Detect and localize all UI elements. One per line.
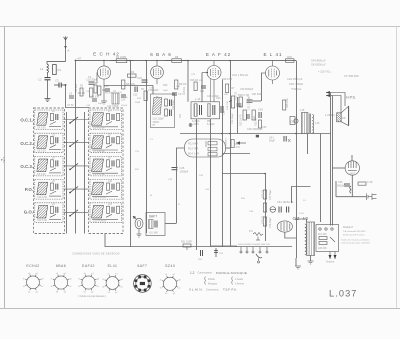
wire osc link y85 — [104, 85, 153, 87]
svg-text:C10 3-30: C10 3-30 — [37, 196, 48, 199]
wire bank top link — [66, 107, 89, 109]
svg-text:L11: L11 — [108, 203, 112, 206]
svg-text:C7 6-30 pF: C7 6-30 pF — [93, 150, 105, 153]
EL41 grid resistor R20 — [238, 93, 249, 107]
wire speaker feed B — [332, 96, 334, 226]
wire ECH42 grid — [95, 73, 98, 84]
svg-text:R17: R17 — [230, 87, 235, 90]
wire input node — [47, 73, 49, 78]
svg-text:C13 6-30 pF: C13 6-30 pF — [93, 219, 107, 222]
svg-text:Connexions: Connexions — [206, 289, 219, 292]
resistor R21 — [259, 120, 262, 128]
resistor R8 — [165, 55, 188, 62]
wire mid drop x176 — [176, 186, 178, 224]
svg-text:R6: R6 — [131, 71, 135, 74]
socket GZ40 — [160, 264, 182, 295]
svg-text:g2: g2 — [115, 292, 118, 294]
note model text — [341, 226, 371, 245]
svg-text:4 W: 4 W — [236, 146, 241, 149]
resistor R30 — [358, 181, 373, 185]
svg-text:C8 3-30: C8 3-30 — [37, 173, 46, 176]
osc coil L6 — [112, 89, 119, 104]
svg-text:~330V: ~330V — [192, 123, 199, 126]
svg-text:Secteur: Secteur — [326, 261, 334, 264]
wire x202 drop — [201, 73, 203, 102]
wire xfmr secondary drop — [307, 134, 309, 155]
svg-text:PU: PU — [249, 229, 253, 233]
resistor R31 — [181, 241, 192, 251]
svg-text:C15: C15 — [137, 76, 142, 80]
matching box DE — [290, 117, 295, 125]
top B+ rail — [76, 60, 297, 62]
svg-text:GZ40: GZ40 — [165, 264, 175, 268]
svg-text:R8: R8 — [175, 55, 179, 59]
socket ECH42 — [23, 264, 44, 293]
svg-text:ECH42: ECH42 — [26, 264, 39, 268]
svg-text:L3: L3 — [52, 133, 55, 136]
lamp E2 — [214, 248, 224, 257]
svg-text:R1: R1 — [58, 68, 62, 72]
trimmer C13 — [133, 87, 138, 97]
svg-text:g8: g8 — [69, 278, 72, 280]
wire antenna lead down to band switch — [65, 85, 67, 108]
resistor R5 — [122, 80, 135, 89]
wire right bus x230 — [230, 61, 232, 247]
svg-text:R25 10R: R25 10R — [286, 98, 289, 108]
svg-text:s6: s6 — [28, 273, 31, 275]
op tube EAF42 — [202, 61, 221, 102]
svg-text:C30 5000pF: C30 5000pF — [240, 88, 254, 91]
EAF42 screen resistor R16 — [190, 79, 198, 91]
wire rail drop x146 — [146, 61, 148, 234]
svg-text:g2: g2 — [91, 292, 94, 294]
svg-text:730: 730 — [124, 97, 128, 99]
svg-text:6BA6: 6BA6 — [56, 264, 66, 268]
wire x196 lower — [196, 146, 198, 250]
svg-text:C49: C49 — [249, 211, 254, 213]
svg-text:R14 1,4R: R14 1,4R — [188, 152, 199, 156]
svg-text:C9 6-30 pF: C9 6-30 pF — [93, 173, 105, 176]
svg-text:Parole: Parole — [208, 278, 216, 281]
svg-text:Vibreur: Vibreur — [225, 138, 228, 146]
capacitor C42 on bus — [284, 136, 291, 142]
svg-text:50pF: 50pF — [98, 103, 104, 105]
svg-text:110 130: 110 130 — [318, 233, 327, 236]
coil bank B dashed enclosure — [89, 108, 124, 234]
svg-text:1.2: 1.2 — [190, 271, 195, 275]
svg-text:6AF7: 6AF7 — [149, 215, 157, 219]
svg-text:f5: f5 — [78, 278, 81, 280]
svg-text:C5: C5 — [69, 93, 73, 96]
svg-text:R15: R15 — [199, 80, 204, 82]
legend brace 2 — [232, 277, 245, 286]
svg-text:CT 600 ΩW: CT 600 ΩW — [344, 74, 359, 78]
svg-text:A: A — [67, 49, 69, 53]
svg-text:R16: R16 — [137, 98, 142, 100]
svg-text:R2: R2 — [80, 85, 84, 88]
wire antenna to input — [47, 62, 66, 65]
coil L1 — [40, 64, 49, 73]
frame left rule — [4, 27, 6, 309]
coil module A OC3 — [35, 156, 63, 176]
svg-text:C23: C23 — [216, 97, 221, 100]
wire to speaker top — [326, 91, 345, 113]
svg-text:R29 1R: R29 1R — [262, 216, 265, 224]
wire EL41 grid bus — [237, 97, 239, 134]
rectifier tube GZ40 — [277, 221, 292, 232]
mains selector box — [316, 225, 339, 252]
coil module A GO — [35, 203, 63, 223]
svg-text:L6: L6 — [113, 89, 116, 93]
wire IF2 drops — [196, 119, 198, 146]
svg-text:1 Avant: 1 Avant — [235, 278, 243, 281]
resistor R1 — [53, 65, 62, 75]
svg-text:s6: s6 — [165, 274, 168, 276]
value micro noise mid — [135, 139, 306, 215]
wire transformer top — [296, 219, 307, 222]
svg-text:C43 5000 μF: C43 5000 μF — [311, 64, 326, 67]
svg-text:C28: C28 — [180, 166, 185, 170]
PU resistor network — [249, 229, 263, 240]
svg-text:m7: m7 — [115, 274, 119, 276]
svg-text:g8: g8 — [178, 280, 181, 282]
svg-text:a1: a1 — [41, 286, 44, 288]
band switch wafer row OC2 — [64, 140, 89, 147]
svg-text:a1: a1 — [121, 287, 124, 289]
arrow AVC left — [236, 141, 246, 144]
IF transformer T2 can — [191, 97, 220, 126]
wire eye column lower — [351, 184, 353, 197]
ground ECH42 cathode — [101, 96, 107, 104]
svg-text:P.O.: P.O. — [25, 187, 33, 192]
value micro noise 6BA6 — [135, 86, 180, 104]
svg-text:C2: C2 — [38, 78, 42, 82]
svg-text:6 B A 6: 6 B A 6 — [150, 52, 172, 57]
band switch wafer row OC1 — [64, 117, 89, 124]
frame bottom rule — [0, 308, 400, 310]
svg-text:R28 3R: R28 3R — [262, 190, 265, 198]
op tube 6BA6 — [151, 60, 164, 85]
legend switch line — [190, 271, 247, 275]
svg-text:f4: f4 — [102, 287, 105, 289]
coil module B OC3 — [90, 156, 122, 176]
svg-text:PT: PT — [153, 125, 157, 127]
wire gap bus 2 — [84, 112, 86, 234]
antenna A — [64, 36, 70, 61]
ECH42 grid capacitor C10 — [86, 78, 98, 85]
capacitor C34 — [258, 108, 263, 119]
coil module B GO — [90, 203, 122, 223]
ground GZ40 — [295, 258, 301, 269]
svg-text:R18 0,5R: R18 0,5R — [222, 78, 232, 81]
op tube EL41 — [261, 61, 280, 85]
wire eye top — [351, 155, 353, 161]
svg-text:P04: P04 — [198, 259, 203, 261]
svg-text:R12 64R: R12 64R — [188, 142, 198, 146]
frame top rule — [0, 26, 400, 28]
svg-text:L 14: L 14 — [195, 97, 201, 101]
svg-text:C29: C29 — [168, 179, 173, 181]
svg-text:2 Arriere: 2 Arriere — [235, 283, 245, 286]
svg-text:T.A. alternatif 110-245V: T.A. alternatif 110-245V — [343, 230, 366, 233]
svg-text:C32 10000pF: C32 10000pF — [248, 95, 251, 110]
svg-text:300R: 300R — [135, 102, 141, 104]
wire output drop x320 — [320, 134, 322, 223]
svg-text:f4: f4 — [23, 286, 26, 288]
output transformer L15 primary — [300, 108, 308, 134]
wire rail drop x130 — [130, 61, 132, 248]
ground — [45, 99, 51, 102]
svg-text:L6: L6 — [52, 203, 55, 206]
svg-text:C12: C12 — [118, 92, 123, 94]
svg-text:E A F 42: E A F 42 — [206, 52, 231, 57]
svg-text:k3: k3 — [165, 293, 168, 295]
value micro noise cluster ECH42 — [86, 91, 128, 107]
svg-text:R2 100R: R2 100R — [116, 55, 126, 59]
svg-text:a1: a1 — [69, 286, 72, 288]
svg-text:sont mesurees avec voltmetre: sont mesurees avec voltmetre — [341, 242, 371, 245]
svg-text:Toutes les tensions continues: Toutes les tensions continues — [341, 239, 370, 242]
svg-text:L9: L9 — [108, 157, 111, 160]
legend connexions line — [189, 288, 237, 292]
svg-text:10R: 10R — [176, 86, 180, 88]
svg-text:1.33 KΩ: 1.33 KΩ — [325, 113, 335, 117]
svg-text:m7: m7 — [91, 273, 95, 275]
band switch wafer row OC3 — [64, 163, 89, 170]
svg-text:C35 20000pF: C35 20000pF — [247, 127, 263, 131]
svg-text:C50: C50 — [219, 253, 224, 255]
svg-text:C11: C11 — [104, 84, 109, 88]
svg-text:PAROLE-MUSIQUE: PAROLE-MUSIQUE — [216, 271, 247, 275]
wire EL41 grid drop — [261, 73, 263, 101]
svg-text:g8: g8 — [97, 278, 100, 280]
trimmer C22 — [221, 106, 226, 115]
svg-text:( Culots vus par dessous ): ( Culots vus par dessous ) — [78, 295, 106, 298]
svg-text:C5 6-30 pF: C5 6-30 pF — [93, 127, 105, 130]
capacitor C17 — [172, 92, 183, 96]
capacitor C51 16uF — [277, 200, 294, 213]
wire oscillator bus x75 — [75, 61, 77, 234]
svg-text:Modele P: Modele P — [343, 226, 354, 229]
AVC bus — [180, 133, 331, 135]
svg-text:R10: R10 — [163, 84, 168, 87]
wire speaker feed A — [330, 93, 332, 226]
socket 6AF7 — [134, 264, 152, 292]
coil module A PO — [35, 180, 63, 200]
resistor R3 — [78, 88, 93, 97]
frame right rule — [396, 27, 398, 309]
svg-text:M: M — [150, 195, 152, 197]
svg-text:G.O.: G.O. — [24, 210, 33, 215]
svg-text:L16: L16 — [315, 121, 320, 125]
svg-text:O.C.1.: O.C.1. — [20, 118, 33, 123]
terminal node — [189, 124, 192, 127]
resistor R4 — [98, 86, 106, 95]
svg-text:Musique: Musique — [208, 283, 218, 286]
svg-text:+ 210 V E₁₂: + 210 V E₁₂ — [318, 71, 331, 74]
capacitor C33b — [247, 114, 249, 119]
svg-text:50μF: 50μF — [269, 139, 275, 143]
capacitor C14 — [121, 95, 126, 102]
svg-text:O.C.2.: O.C.2. — [20, 141, 33, 146]
svg-text:C13: C13 — [133, 94, 138, 97]
capacitor C24 — [200, 86, 206, 93]
wire EAF42 column — [222, 80, 224, 134]
svg-text:C24: C24 — [200, 90, 205, 93]
svg-text:X L: X L — [150, 139, 154, 141]
svg-text:DE: DE — [291, 120, 295, 124]
svg-text:L1: L1 — [40, 67, 44, 71]
svg-text:C12 730pF: C12 730pF — [107, 105, 119, 108]
svg-text:m7: m7 — [35, 273, 39, 275]
resistor R23 — [252, 110, 258, 126]
svg-text:L10: L10 — [108, 180, 113, 183]
svg-text:f5: f5 — [51, 278, 54, 280]
svg-text:R3 25R: R3 25R — [105, 93, 113, 95]
junction block on AVC bus — [256, 135, 259, 138]
socket EAF42 — [78, 264, 100, 294]
wire osc section — [103, 84, 105, 96]
svg-text:C 3R: C 3R — [367, 181, 373, 184]
pickup unit block — [133, 213, 176, 238]
svg-text:L8: L8 — [108, 133, 111, 136]
capacitor C5 — [69, 93, 74, 99]
svg-text:C52 16: C52 16 — [285, 200, 294, 204]
coil module A OC2 — [35, 133, 63, 153]
magic eye 6AF7 — [333, 161, 360, 184]
svg-text:C3: C3 — [55, 79, 59, 83]
svg-text:415pF: 415pF — [121, 105, 128, 107]
resistor R22 — [240, 110, 247, 126]
svg-text:E L 41: E L 41 — [263, 52, 282, 57]
wire gap bus 1 — [66, 112, 68, 234]
lamp resistor box — [185, 139, 226, 157]
svg-text:C21: C21 — [179, 113, 182, 118]
svg-text:CONNEXIONS VUES DE DESSOUS: CONNEXIONS VUES DE DESSOUS — [72, 253, 119, 256]
junction dots rail — [129, 60, 297, 220]
fuse — [270, 207, 276, 213]
svg-text:C20 80pF: C20 80pF — [172, 99, 175, 110]
svg-text:R21 50R: R21 50R — [252, 93, 262, 96]
value R11 — [231, 140, 240, 150]
svg-text:C6 3⁄30: C6 3⁄30 — [91, 96, 100, 99]
coil module B PO — [90, 180, 122, 200]
wire rectifier cathode — [285, 232, 296, 238]
svg-text:s6: s6 — [56, 273, 59, 275]
svg-text:C30 200pF: C30 200pF — [232, 113, 234, 124]
capacitor C38 — [337, 181, 350, 188]
switch bus commutateur — [237, 244, 293, 263]
band switch wafer row PO — [64, 187, 89, 194]
transformer primary bumps — [305, 224, 307, 255]
svg-text:R24: R24 — [253, 115, 256, 120]
svg-text:R9 1R: R9 1R — [179, 82, 186, 86]
wire lamp box right — [226, 147, 231, 149]
wire x222 lower — [222, 134, 224, 248]
svg-text:N: N — [178, 204, 180, 206]
svg-text:C25: C25 — [135, 151, 140, 153]
svg-text:L2: L2 — [52, 110, 55, 113]
svg-text:C18 110pF: C18 110pF — [153, 119, 165, 121]
svg-text:CH1 2500 μF: CH1 2500 μF — [287, 77, 303, 81]
mains plug — [367, 194, 377, 201]
band switch wafer row GO — [64, 210, 89, 217]
svg-text:R31: R31 — [241, 198, 246, 200]
legend brace 1 — [205, 277, 218, 286]
svg-text:R31 100R: R31 100R — [181, 241, 192, 244]
secteur arrows — [326, 252, 337, 264]
capacitor C2 — [38, 78, 51, 82]
socket 6BA6 — [51, 264, 73, 294]
svg-text:R26: R26 — [287, 56, 292, 59]
svg-text:R19 1R: R19 1R — [235, 92, 238, 100]
wire B feed corner — [292, 187, 311, 204]
AVC divider chain — [223, 174, 273, 242]
svg-text:50R: 50R — [224, 94, 228, 96]
svg-text:R22 0,47R: R22 0,47R — [240, 114, 243, 126]
socket EL41 — [102, 264, 123, 294]
svg-text:C22: C22 — [223, 110, 226, 115]
svg-text:4ΩW 1000ΩW 1000ΩW 4ΩW 10Ω: 4ΩW 1000ΩW 1000ΩW 4ΩW 10Ω — [238, 244, 270, 246]
svg-text:m7: m7 — [173, 274, 177, 276]
svg-text:C4B: C4B — [86, 91, 91, 93]
svg-text:f4: f4 — [51, 286, 54, 288]
svg-text:g8: g8 — [121, 279, 124, 281]
wire rail node — [75, 60, 77, 62]
svg-text:R16 1R: R16 1R — [190, 79, 198, 82]
svg-text:12R: 12R — [199, 175, 203, 177]
svg-text:L7: L7 — [108, 110, 111, 113]
svg-text:C48 25μF: C48 25μF — [269, 217, 272, 228]
svg-text:C31 1 500 pF: C31 1 500 pF — [232, 73, 249, 77]
svg-text:6AF7: 6AF7 — [349, 173, 355, 176]
value micro noise EAF42 — [191, 74, 234, 124]
resistor RB — [94, 85, 97, 93]
svg-text:0,1R: 0,1R — [299, 213, 304, 215]
svg-text:C4 3-30: C4 3-30 — [37, 126, 46, 129]
svg-text:k3: k3 — [56, 292, 59, 294]
svg-text:6-30pF: 6-30pF — [207, 123, 215, 126]
svg-text:k3: k3 — [108, 292, 111, 294]
svg-text:g8: g8 — [41, 278, 44, 280]
capacitor C28 — [172, 166, 189, 174]
svg-text:-7-: -7- — [1, 157, 7, 163]
svg-text:a1: a1 — [97, 286, 100, 288]
svg-text:f4: f4 — [160, 288, 163, 290]
svg-text:H.P.S.: H.P.S. — [346, 96, 356, 100]
svg-text:R15 2R: R15 2R — [183, 87, 186, 95]
output transformer L16 secondary — [309, 114, 320, 134]
svg-text:30pF: 30pF — [163, 90, 169, 92]
svg-text:a1: a1 — [178, 288, 181, 290]
svg-text:R3 2R: R3 2R — [78, 91, 85, 95]
svg-text:f5: f5 — [160, 280, 163, 282]
power transformer core — [307, 222, 315, 256]
svg-text:R18 0,5R: R18 0,5R — [227, 100, 229, 110]
heater symbol — [350, 186, 351, 193]
svg-text:XU 145: XU 145 — [149, 231, 158, 235]
volume pot R19 — [229, 92, 238, 108]
svg-text:L.037: L.037 — [329, 289, 358, 299]
svg-text:R27: R27 — [135, 169, 140, 171]
svg-text:C48: C48 — [86, 105, 91, 107]
svg-text:C47 50μF: C47 50μF — [269, 189, 272, 200]
capacitor C11 — [104, 84, 110, 91]
capacitor C3 — [54, 79, 66, 88]
svg-text:5000pF: 5000pF — [337, 185, 346, 188]
6BA6 grid components C15 — [137, 76, 148, 82]
coil bank A dashed enclosure — [34, 108, 65, 234]
